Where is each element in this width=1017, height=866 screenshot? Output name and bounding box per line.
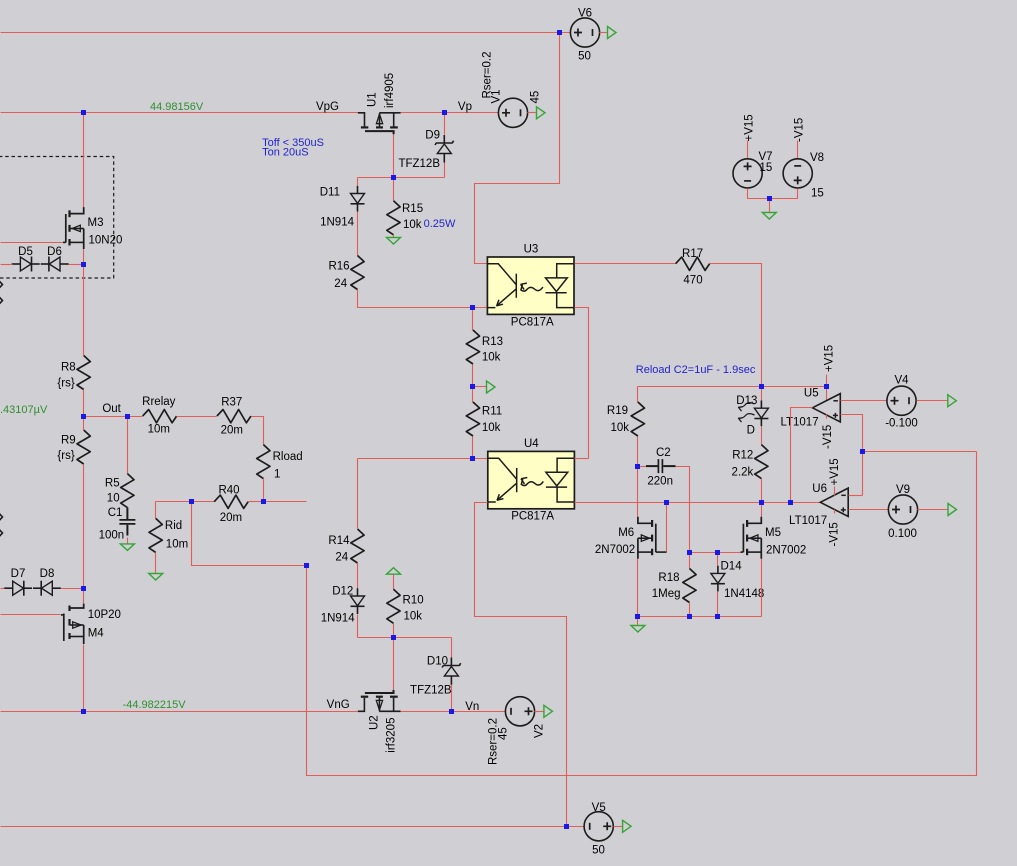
wire top rail to V6 xyxy=(1,32,571,34)
wire D5 row xyxy=(1,264,13,266)
wire V7V8 bottom xyxy=(748,189,798,199)
wire U3 pin4 to R17 xyxy=(575,263,676,265)
wire M6 gate xyxy=(666,503,668,553)
optocoupler U4 PC817A xyxy=(488,451,575,508)
diode D12 1N914 xyxy=(357,588,359,596)
wire R18 top xyxy=(689,553,691,569)
svg-text:R10: R10 xyxy=(403,595,424,607)
port arrow V6 xyxy=(608,27,617,39)
wire R15 to gnd xyxy=(393,235,395,238)
svg-text:R9: R9 xyxy=(61,434,76,446)
resistor R19 xyxy=(631,402,644,436)
svg-text:D8: D8 xyxy=(40,568,55,580)
svg-text:R12: R12 xyxy=(732,449,753,461)
svg-text:Vp: Vp xyxy=(458,101,472,113)
wire R13 top xyxy=(472,308,474,331)
net +V15 V7 xyxy=(747,141,749,159)
svg-text:D11: D11 xyxy=(320,187,340,199)
wire node row left xyxy=(358,177,394,179)
voltage source V9 xyxy=(888,495,917,524)
voltage source V1 xyxy=(498,98,527,127)
svg-text:M6: M6 xyxy=(618,527,634,539)
partial component left edge xyxy=(0,278,3,308)
net -V15 U5 xyxy=(826,415,828,419)
optocoupler U3 PC817A xyxy=(487,257,574,314)
svg-text:50: 50 xyxy=(578,51,591,63)
wire R12 down xyxy=(761,479,763,503)
wire R40 to Rload node xyxy=(249,501,264,503)
wire port stub xyxy=(473,386,487,388)
svg-text:24: 24 xyxy=(335,552,348,564)
wire R8 to Out xyxy=(83,390,85,417)
diode D11 1N914 xyxy=(357,186,359,194)
svg-text:-44.982215V: -44.982215V xyxy=(123,699,187,711)
ground M6 xyxy=(631,626,645,633)
resistor R5 xyxy=(121,474,134,508)
svg-text:R13: R13 xyxy=(482,336,503,348)
svg-text:PC817A: PC817A xyxy=(511,316,554,328)
wire U1 drain down xyxy=(393,135,395,178)
svg-text:R18: R18 xyxy=(658,572,679,584)
resistor R9 xyxy=(77,430,90,464)
wire U2 drain xyxy=(393,638,395,690)
svg-text:1Meg: 1Meg xyxy=(652,588,681,600)
port up R10 xyxy=(387,568,401,575)
diode D9 TFZ12B xyxy=(443,135,445,143)
wire R40 row xyxy=(156,501,215,503)
svg-text:0.100: 0.100 xyxy=(888,528,917,540)
resistor R12 xyxy=(755,445,768,479)
svg-text:R37: R37 xyxy=(221,397,242,409)
svg-text:20m: 20m xyxy=(220,512,242,524)
svg-text:24: 24 xyxy=(334,278,347,290)
svg-text:U4: U4 xyxy=(524,438,539,450)
wire U4 pin2 rail xyxy=(575,502,821,504)
resistor Rrelay xyxy=(143,410,177,423)
svg-text:R40: R40 xyxy=(218,485,239,497)
resistor R13 xyxy=(466,330,479,364)
wire R9 down xyxy=(83,417,85,431)
transistor M4 10P20 xyxy=(70,604,84,608)
svg-text:-V15: -V15 xyxy=(829,522,841,546)
wire U5 +in xyxy=(841,415,863,496)
svg-text:D: D xyxy=(747,424,755,436)
voltage source V7 xyxy=(733,159,762,188)
wire R17 right xyxy=(710,264,762,387)
wire U5 -in xyxy=(841,400,887,402)
wire R11 down xyxy=(472,437,474,459)
svg-text:D13: D13 xyxy=(736,395,757,407)
svg-text:VnG: VnG xyxy=(327,699,350,711)
svg-text:10k: 10k xyxy=(404,611,423,623)
svg-text:irf3205: irf3205 xyxy=(386,718,398,753)
svg-text:45: 45 xyxy=(530,91,542,104)
resistor Rload xyxy=(257,445,270,479)
svg-text:44.98156V: 44.98156V xyxy=(150,101,204,113)
svg-text:U3: U3 xyxy=(524,243,539,255)
wire D12 row xyxy=(358,637,452,639)
voltage source V4 xyxy=(887,386,916,415)
svg-text:R11: R11 xyxy=(482,406,502,418)
wire R10 top xyxy=(393,575,395,590)
wire node row right xyxy=(394,177,445,179)
svg-text:220n: 220n xyxy=(647,475,673,487)
resistor Rid xyxy=(149,518,162,552)
port arrow V4 xyxy=(948,395,957,407)
wire R11 top xyxy=(472,387,474,403)
resistor R10 xyxy=(387,589,400,623)
svg-text:Rid: Rid xyxy=(165,520,182,532)
transistor M5 2N7002 xyxy=(748,517,762,524)
transistor M3 10N20 xyxy=(70,207,84,214)
wire R14 top xyxy=(357,459,359,529)
capacitor C2 xyxy=(646,465,658,467)
svg-text:.43107µV: .43107µV xyxy=(0,404,48,416)
wire U4 pin4 row xyxy=(575,458,589,460)
wire Rid branch xyxy=(155,502,157,519)
svg-text:Out: Out xyxy=(102,403,121,415)
wire loop right top xyxy=(863,451,977,453)
capacitor C1 xyxy=(126,508,128,520)
svg-text:15: 15 xyxy=(811,187,824,199)
svg-text:irf4905: irf4905 xyxy=(384,73,396,108)
wire M4 gate xyxy=(1,614,61,616)
svg-text:15: 15 xyxy=(760,162,773,174)
wire Rid to gnd xyxy=(155,553,157,574)
wire U3 out right xyxy=(575,308,589,459)
svg-text:10m: 10m xyxy=(148,424,170,436)
wire R16 down xyxy=(358,290,488,308)
svg-text:{rs}: {rs} xyxy=(57,377,74,389)
wire U4 pin3 xyxy=(475,503,567,827)
wire M4 drain xyxy=(83,589,85,604)
svg-text:Rload: Rload xyxy=(273,451,303,463)
svg-text:2N7002: 2N7002 xyxy=(595,544,635,556)
wire D14 top xyxy=(717,553,719,566)
diode D13 LED xyxy=(760,401,762,409)
svg-text:U2: U2 xyxy=(369,715,381,730)
port arrow V9 xyxy=(948,504,957,516)
diode D10 TFZ12B xyxy=(450,658,452,666)
svg-text:10: 10 xyxy=(107,492,120,504)
svg-text:100n: 100n xyxy=(99,529,125,541)
svg-text:0.25W: 0.25W xyxy=(424,218,456,230)
wire C1 to gnd xyxy=(127,538,129,544)
wire U6 -in xyxy=(849,495,863,497)
svg-text:V8: V8 xyxy=(810,152,824,164)
svg-text:1N4148: 1N4148 xyxy=(724,588,764,600)
svg-text:1N914: 1N914 xyxy=(321,613,355,625)
svg-text:R8: R8 xyxy=(61,362,76,374)
diode D6 xyxy=(41,263,49,265)
wire R15 col xyxy=(393,178,395,201)
svg-text:V5: V5 xyxy=(592,802,606,814)
wire loop left vertical xyxy=(192,502,307,566)
wire R5 branch xyxy=(127,417,129,474)
net -V15 U6 xyxy=(834,510,836,514)
wire D13 down xyxy=(761,427,763,445)
svg-text:10P20: 10P20 xyxy=(88,609,121,621)
resistor R8 xyxy=(77,356,90,390)
wire M5 source xyxy=(761,559,763,617)
wire R14 to D12 xyxy=(357,563,359,589)
svg-text:U5: U5 xyxy=(804,388,819,400)
wire M3 gate xyxy=(1,242,63,244)
svg-text:Rrelay: Rrelay xyxy=(142,396,175,408)
svg-text:20m: 20m xyxy=(221,425,243,437)
svg-text:R5: R5 xyxy=(105,478,120,490)
partial component left edge 2 xyxy=(0,510,3,540)
diode D7 xyxy=(4,587,13,589)
svg-text:R14: R14 xyxy=(328,535,350,547)
net +V15 U5 xyxy=(826,375,828,401)
wire M3 drain xyxy=(83,113,85,208)
svg-text:TFZ12B: TFZ12B xyxy=(410,685,452,697)
wire C2 left xyxy=(638,466,647,468)
ground Rid xyxy=(149,574,163,581)
wire VpG rail xyxy=(1,112,359,114)
ground V7V8 xyxy=(762,213,776,220)
svg-text:M3: M3 xyxy=(88,217,104,229)
resistor R15 xyxy=(387,201,400,235)
resistor R11 xyxy=(466,402,479,436)
svg-text:R16: R16 xyxy=(328,261,349,273)
port arrow V1 xyxy=(537,107,546,119)
wire D9 col xyxy=(444,113,446,135)
svg-text:VpG: VpG xyxy=(316,101,339,113)
svg-text:V6: V6 xyxy=(578,8,592,20)
voltage source V8 xyxy=(783,159,812,188)
net +V15 U6 xyxy=(834,487,836,496)
resistor R37 xyxy=(217,410,251,423)
svg-text:10N20: 10N20 xyxy=(89,234,123,246)
svg-text:Rser=0.2: Rser=0.2 xyxy=(488,718,500,765)
svg-text:V1: V1 xyxy=(491,89,503,103)
wire U1 to Vp xyxy=(401,112,499,114)
wire M4 source xyxy=(83,645,85,712)
wire M3 to R8 xyxy=(83,265,85,356)
wire U5 out xyxy=(791,408,813,503)
net -V15 V8 xyxy=(797,141,799,159)
svg-text:50: 50 xyxy=(592,845,605,857)
wire D11 to R16 xyxy=(357,212,359,256)
svg-text:470: 470 xyxy=(683,275,702,287)
svg-text:-V15: -V15 xyxy=(822,425,834,449)
svg-text:PC817A: PC817A xyxy=(511,511,554,523)
wire Out rail xyxy=(84,416,143,418)
wire U4 pin1 row xyxy=(358,458,488,460)
svg-text:M4: M4 xyxy=(88,628,105,640)
svg-text:+V15: +V15 xyxy=(824,345,836,372)
diode D14 1N4148 xyxy=(717,566,719,574)
wire D11 col xyxy=(357,178,359,186)
transistor U2 irf3205 xyxy=(358,698,365,712)
resistor R16 xyxy=(351,256,364,290)
svg-text:V4: V4 xyxy=(894,374,909,386)
resistor R40 xyxy=(214,495,248,508)
resistor R18 xyxy=(683,569,696,603)
wire gnd stub V7V8 xyxy=(769,199,771,213)
ground C1 xyxy=(120,544,134,551)
wire R40 node right xyxy=(264,501,307,503)
wire D14 down xyxy=(717,592,719,617)
svg-text:+V15: +V15 xyxy=(829,458,841,485)
svg-text:2N7002: 2N7002 xyxy=(766,545,806,557)
op-amp U5 LT1017 xyxy=(812,394,840,422)
wire D10 down xyxy=(451,685,453,712)
wire loop bottom xyxy=(307,452,977,776)
wire M6 drain xyxy=(637,467,639,517)
svg-text:D14: D14 xyxy=(721,561,743,573)
svg-text:LT1017: LT1017 xyxy=(789,515,827,527)
svg-text:2.2k: 2.2k xyxy=(732,467,754,479)
diode D8 xyxy=(33,587,41,589)
svg-text:M5: M5 xyxy=(765,527,781,539)
svg-text:TFZ12B: TFZ12B xyxy=(398,158,440,170)
svg-text:-0.100: -0.100 xyxy=(885,418,918,430)
wire R18 down xyxy=(689,603,691,617)
svg-text:Vn: Vn xyxy=(465,701,479,713)
wire gate rail xyxy=(690,552,741,554)
svg-text:D7: D7 xyxy=(11,568,26,580)
wire bottom rail xyxy=(638,616,762,618)
svg-text:1: 1 xyxy=(274,469,280,481)
svg-text:{rs}: {rs} xyxy=(57,450,74,462)
wire U2 to Vn xyxy=(401,711,506,713)
svg-text:45: 45 xyxy=(498,727,510,740)
voltage source V2 xyxy=(505,697,534,726)
svg-text:C1: C1 xyxy=(108,507,123,519)
wire V6 down-left to U3 pin1 xyxy=(475,33,560,264)
port arrow V2 xyxy=(544,705,553,717)
wire R13 down xyxy=(472,365,474,387)
wire M6 source xyxy=(637,559,639,617)
wire M5 drain xyxy=(761,503,763,517)
svg-text:C2: C2 xyxy=(656,447,671,459)
wire D13 top xyxy=(761,387,763,401)
svg-text:Ton 20uS: Ton 20uS xyxy=(262,147,308,159)
transistor U1 irf4905 xyxy=(358,113,365,127)
svg-text:1N914: 1N914 xyxy=(320,217,354,229)
svg-text:Reload C2=1uF - 1.9sec: Reload C2=1uF - 1.9sec xyxy=(636,364,756,376)
svg-text:R17: R17 xyxy=(682,248,703,260)
wire M3 source xyxy=(83,250,85,265)
svg-text:D10: D10 xyxy=(427,656,448,668)
LED arrows D13 xyxy=(739,403,755,411)
svg-text:U6: U6 xyxy=(812,483,827,495)
wire R37 to Rload xyxy=(252,417,264,445)
svg-text:10k: 10k xyxy=(610,422,629,434)
wire V5 rail xyxy=(1,826,585,828)
svg-text:R19: R19 xyxy=(607,405,628,417)
wire gnd stub xyxy=(637,617,639,626)
resistor R14 xyxy=(351,529,364,563)
svg-text:10k: 10k xyxy=(403,219,422,231)
wire R19 top xyxy=(637,387,639,403)
svg-text:10k: 10k xyxy=(482,422,501,434)
voltage source V5 xyxy=(584,812,613,841)
port arrow mid xyxy=(487,381,496,393)
wire VnG rail xyxy=(1,711,358,713)
voltage source V6 xyxy=(570,18,599,47)
svg-text:-V15: -V15 xyxy=(794,118,806,142)
wire C2 right xyxy=(676,467,690,553)
wire D7 row xyxy=(1,588,5,590)
svg-text:10m: 10m xyxy=(166,539,188,551)
dashed box M3 xyxy=(0,157,114,279)
svg-text:D6: D6 xyxy=(47,246,62,258)
transistor M6 2N7002 xyxy=(638,517,652,524)
svg-text:R15: R15 xyxy=(402,203,423,215)
svg-text:10k: 10k xyxy=(482,352,501,364)
svg-text:V2: V2 xyxy=(534,724,546,738)
wire D12 down xyxy=(357,615,359,638)
resistor R17 xyxy=(676,257,710,270)
wire Rrelay to R37 xyxy=(177,416,217,418)
wire R10 down xyxy=(393,624,395,638)
wire U6 +in xyxy=(849,509,889,511)
wire +V15 rail xyxy=(638,386,827,388)
op-amp U6 LT1017 xyxy=(820,488,848,516)
svg-text:D9: D9 xyxy=(425,130,440,142)
svg-text:U1: U1 xyxy=(367,92,379,107)
port arrow V5 xyxy=(623,820,632,832)
wire Rload down xyxy=(263,479,265,502)
wire D10 col xyxy=(451,638,453,658)
svg-text:V9: V9 xyxy=(896,484,910,496)
svg-text:+V15: +V15 xyxy=(744,114,756,141)
svg-text:LT1017: LT1017 xyxy=(780,417,818,429)
wire R19 down xyxy=(637,437,639,467)
ground R15 xyxy=(387,238,401,245)
svg-text:D5: D5 xyxy=(18,246,33,258)
svg-text:D12: D12 xyxy=(332,586,353,598)
diode D5 xyxy=(12,263,21,265)
